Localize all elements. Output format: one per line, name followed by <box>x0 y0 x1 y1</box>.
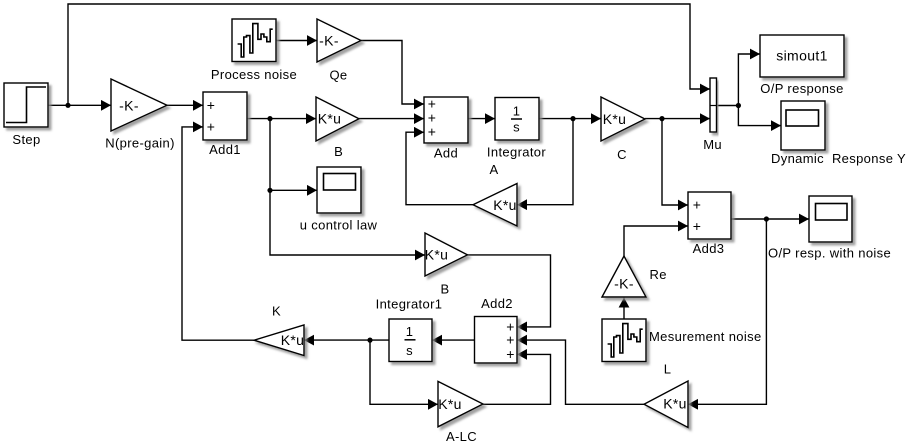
svg-text:u control law: u control law <box>300 218 378 233</box>
sum Add2 flipped <box>475 317 518 364</box>
block Integrator <box>495 98 539 141</box>
wire K gain to Add1 input2 <box>182 127 254 340</box>
sum Add <box>424 97 468 143</box>
svg-text:Add: Add <box>434 146 458 161</box>
svg-text:Process noise: Process noise <box>211 67 297 82</box>
wire L gain to Add2 input2 <box>517 340 644 404</box>
wire Process noise to Qe <box>276 40 317 42</box>
sum Add1 <box>203 92 247 140</box>
wire to simout1 <box>738 54 760 106</box>
svg-text:+: + <box>693 197 702 213</box>
wire N to Add1 input1 <box>167 104 203 106</box>
node C output junction <box>659 116 664 121</box>
wire Add3 to noise scope <box>731 218 809 220</box>
gain A-LC <box>438 381 483 426</box>
node integrator output junction <box>570 116 575 121</box>
svg-text:+: + <box>207 118 216 134</box>
wire integrator junction down to A gain <box>517 119 573 205</box>
gain B upper <box>316 97 359 141</box>
gain L flipped <box>644 381 688 428</box>
svg-text:O/P response: O/P response <box>760 81 843 96</box>
wire Add3 junction down to L gain <box>688 219 766 404</box>
svg-text:-K-: -K- <box>614 275 634 291</box>
svg-text:s: s <box>406 343 413 358</box>
svg-text:B: B <box>334 144 343 159</box>
block u control law <box>317 167 361 213</box>
node Add3 output junction <box>764 216 769 221</box>
svg-text:Qe: Qe <box>329 68 347 83</box>
wire Add1 to B <box>247 118 316 120</box>
svg-text:K*u: K*u <box>603 111 627 127</box>
scope Dynamic Response Y <box>781 101 825 150</box>
block Step <box>4 83 48 127</box>
svg-text:O/P resp. with noise: O/P resp. with noise <box>768 246 891 261</box>
wire Mux output <box>717 105 739 107</box>
svg-text:Dynamic Response Y: Dynamic Response Y <box>771 151 906 166</box>
svg-text:1: 1 <box>406 324 414 339</box>
scope O/P resp. with noise <box>809 196 852 242</box>
gain Qe <box>317 19 361 62</box>
svg-text:Add2: Add2 <box>481 296 513 311</box>
block simout1 <box>760 35 844 77</box>
wire Integrator1 to K gain <box>304 339 389 341</box>
wire Add to Integrator <box>468 118 495 120</box>
wire A-LC to Add2 input3 <box>483 354 551 404</box>
wire integrator1 junction down to A-LC <box>370 340 438 404</box>
node integrator1 output junction <box>367 338 372 343</box>
svg-text:A-LC: A-LC <box>446 429 477 444</box>
svg-text:K*u: K*u <box>318 111 342 127</box>
wire to Dynamic scope <box>738 106 781 126</box>
mux Mu <box>710 78 717 132</box>
wire Qe to Add input1 <box>361 41 424 105</box>
svg-text:K*u: K*u <box>438 396 462 412</box>
gain N(pre-gain) <box>111 79 167 131</box>
svg-text:K*u: K*u <box>663 396 687 412</box>
svg-text:-K-: -K- <box>119 97 139 113</box>
svg-text:Mesurement noise: Mesurement noise <box>649 329 762 344</box>
svg-text:Add3: Add3 <box>693 241 725 256</box>
wire C to Mux input2 <box>645 118 710 120</box>
svg-text:K*u: K*u <box>281 332 305 348</box>
wire Add1 junction down to B(lower) <box>270 119 425 255</box>
wire Add2 to Integrator1 <box>432 339 475 341</box>
svg-text:Integrator1: Integrator1 <box>376 297 443 312</box>
wire Integrator to C <box>539 118 601 120</box>
wire A gain to Add input3 <box>406 132 473 205</box>
svg-text:K*u: K*u <box>493 197 517 213</box>
svg-text:Re: Re <box>650 267 667 282</box>
gain C <box>601 97 645 141</box>
svg-text:L: L <box>664 362 672 377</box>
node u control junction <box>267 188 272 193</box>
svg-text:+: + <box>428 124 437 140</box>
svg-text:Step: Step <box>12 132 40 147</box>
block Mesurement noise <box>602 319 646 362</box>
svg-text:+: + <box>506 346 515 362</box>
wire top long from step junction to Mux input1 <box>68 4 710 105</box>
node Add1 output junction <box>267 116 272 121</box>
node mux output junction <box>736 103 741 108</box>
svg-text:N(pre-gain): N(pre-gain) <box>105 136 175 151</box>
wire B(lower) to Add2 input1 <box>468 255 551 327</box>
svg-text:+: + <box>693 218 702 234</box>
wire C junction down to Add3 input1 <box>662 119 688 205</box>
svg-text:K: K <box>272 304 281 319</box>
svg-text:s: s <box>513 120 520 135</box>
block Process noise <box>232 19 276 62</box>
svg-text:simout1: simout1 <box>776 48 827 64</box>
svg-text:+: + <box>207 97 216 113</box>
wire to u control law <box>270 189 317 191</box>
gain B lower <box>425 233 468 276</box>
svg-text:K*u: K*u <box>425 246 449 262</box>
svg-text:B: B <box>440 282 449 297</box>
svg-text:C: C <box>617 147 627 162</box>
wire Mesurement noise up to Re <box>623 298 625 320</box>
gain Re pointing up <box>602 256 646 297</box>
svg-text:-K-: -K- <box>319 32 339 48</box>
svg-text:Add1: Add1 <box>209 142 241 157</box>
wire Re to Add3 input2 <box>624 226 688 256</box>
svg-text:Integrator: Integrator <box>487 145 546 160</box>
wire B to Add input2 <box>359 118 424 120</box>
gain A flipped <box>473 184 517 227</box>
sum Add3 <box>688 192 731 239</box>
svg-text:1: 1 <box>513 104 521 119</box>
gain K flipped <box>254 325 304 356</box>
svg-text:Mu: Mu <box>703 137 722 152</box>
node step junction <box>65 103 70 108</box>
svg-text:A: A <box>489 162 498 177</box>
block Integrator1 <box>389 319 432 362</box>
wire step to N <box>48 104 111 106</box>
